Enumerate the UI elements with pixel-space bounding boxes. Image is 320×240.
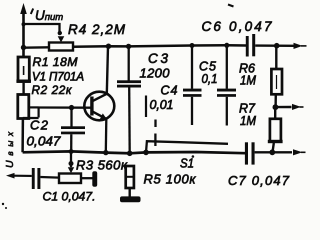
capacitor C1: [32, 168, 59, 189]
svg-text:С1 0,047.: С1 0,047.: [43, 190, 96, 204]
svg-text:R5 100к: R5 100к: [144, 172, 197, 187]
svg-text:R2 22к: R2 22к: [32, 83, 72, 97]
resistor R7: [268, 107, 283, 152]
svg-text:0,01: 0,01: [150, 98, 174, 112]
capacitor C4: [183, 46, 202, 126]
svg-text:R3 560к: R3 560к: [76, 158, 128, 173]
accent mark above C6 label: [228, 5, 234, 7]
wire middle output arrow: [275, 104, 303, 110]
capacitor C5: [217, 45, 236, 125]
wire R3 right terminal: [81, 171, 97, 187]
node S1 rail junction: [143, 150, 149, 156]
wire R2 to base: [23, 107, 92, 119]
node base junction: [69, 105, 74, 110]
svg-text:V1 П701А: V1 П701А: [32, 71, 84, 83]
resistor R5: [126, 166, 134, 197]
resistor R2: [18, 95, 29, 119]
svg-text:0,047: 0,047: [27, 134, 62, 149]
node C4 junction: [190, 43, 195, 48]
wire bus to R4 wiper: [22, 22, 63, 35]
wire rail to top output: [255, 43, 306, 49]
node C5 junction: [224, 43, 229, 48]
wire bottom rail: [23, 151, 245, 153]
resistor R1: [16, 57, 31, 83]
speck artifacts: [2, 155, 194, 209]
switch S1 line: [146, 141, 228, 152]
node C2 rail junction: [69, 149, 74, 154]
node C3 junction: [126, 44, 131, 49]
capacitor C3: [117, 46, 141, 153]
svg-text:R1 18М: R1 18М: [33, 55, 79, 69]
wire top rail: [73, 45, 246, 47]
resistor R3 wiper: [68, 151, 74, 173]
wire bus to R4 left: [21, 45, 49, 50]
capacitor C6: [246, 34, 255, 57]
label +Upit: [31, 9, 33, 15]
node C7 output junction: [269, 149, 275, 155]
svg-text:S1: S1: [180, 157, 194, 171]
node C3-R5 rail junction: [127, 151, 133, 157]
svg-text:С4: С4: [161, 84, 178, 98]
wire collector up: [107, 46, 108, 94]
svg-text:С2: С2: [30, 118, 49, 133]
capacitor C7: [245, 142, 292, 164]
svg-text:Uвых: Uвых: [4, 131, 16, 168]
resistor R4: [49, 43, 73, 51]
switch S1 tick: [154, 120, 156, 147]
svg-text:Uпит: Uпит: [35, 8, 63, 23]
resistor R6: [271, 46, 282, 107]
node output arrow left: [6, 173, 32, 179]
wire emitter down: [105, 120, 108, 153]
ground bar under R5: [120, 196, 141, 202]
transistor V1: [84, 92, 114, 121]
svg-text:0,1: 0,1: [202, 72, 218, 86]
wire bottom output arrow: [293, 149, 306, 155]
node emitter rail junction: [103, 150, 108, 155]
node +Upit supply arrow: [20, 3, 27, 57]
resistor R3: [59, 174, 81, 184]
svg-text:С7 0,047: С7 0,047: [228, 173, 290, 188]
svg-text:R4 2,2М: R4 2,2М: [68, 22, 126, 37]
node middle output junction: [273, 104, 279, 110]
capacitor C2: [61, 108, 85, 152]
svg-text:1М: 1М: [240, 74, 257, 88]
wire stub above S1: [145, 96, 147, 118]
svg-text:1М: 1М: [240, 114, 257, 128]
wire R1-R2: [22, 83, 24, 95]
svg-text:С6 0,047: С6 0,047: [202, 19, 272, 34]
node collector junction: [106, 44, 111, 49]
wire R2 down to rail: [21, 119, 24, 153]
resistor R4 wiper arrow: [58, 36, 65, 42]
svg-text:1200: 1200: [140, 66, 171, 81]
svg-text:С3: С3: [148, 51, 168, 66]
